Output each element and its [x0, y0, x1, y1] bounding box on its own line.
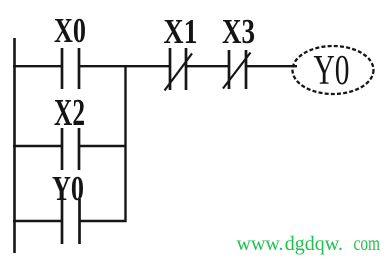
- svg-text:X3: X3: [222, 12, 255, 51]
- NO contact X0: [62, 48, 79, 89]
- NO contact X2: [62, 128, 79, 170]
- wire rung2 segment rail to X2: [13, 145, 61, 147]
- wire rung2 segment X2 to branch: [80, 145, 127, 147]
- wire rung1 segment X1 to X3: [187, 65, 228, 67]
- NO contact Y0: [62, 199, 80, 244]
- svg-text:www.dgdqw.com: www.dgdqw.com: [237, 233, 381, 255]
- wire rung3 segment rail to Y0 contact: [13, 220, 61, 222]
- coil Y0 (output): [293, 46, 374, 94]
- svg-text:X2: X2: [54, 92, 85, 134]
- wire rung1 segment rail to X0: [13, 65, 61, 67]
- NC contact X1: [165, 48, 193, 91]
- svg-text:X0: X0: [54, 11, 86, 50]
- svg-text:Y0: Y0: [314, 48, 350, 94]
- wire rung1 segment X0 to X1: [80, 65, 169, 67]
- left power rail: [13, 38, 16, 253]
- wire rung3 segment Y0 contact to branch: [80, 220, 127, 222]
- wire rung1 segment X3 to coil: [247, 65, 297, 67]
- junction node rung1 / branch vertical wire: [124, 66, 126, 222]
- svg-text:X1: X1: [164, 12, 198, 51]
- NC contact X3: [223, 50, 251, 89]
